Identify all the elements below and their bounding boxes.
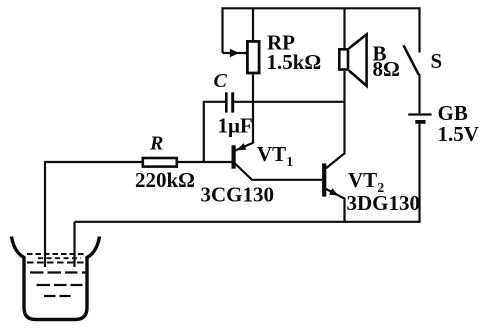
svg-text:1μF: 1μF [218, 113, 253, 137]
water dashes row 4 [37, 284, 83, 286]
water dashes row 5 [44, 295, 71, 297]
water dashes row 3 [30, 271, 87, 273]
svg-text:1.5V: 1.5V [438, 122, 479, 146]
battery GB positive plate [408, 113, 431, 115]
water surface dashes row 2 [27, 261, 87, 263]
water surface dashes row 1 [27, 253, 87, 255]
wire VT1 emitter vertical to node row [252, 102, 254, 144]
wire battery to bottom rail [418, 124, 420, 223]
wire right electrode drop [73, 222, 75, 267]
wire base wire R to VT1 [178, 161, 232, 163]
wire capacitor left lead [204, 102, 225, 162]
svg-text:8Ω: 8Ω [373, 57, 400, 81]
wire bottom rail [75, 221, 421, 223]
transistor VT2 emitter with NPN arrow [326, 188, 345, 199]
svg-text:3CG130: 3CG130 [201, 183, 275, 207]
wire switch to battery [418, 74, 420, 113]
svg-text:VT1: VT1 [257, 142, 293, 170]
wire top supply rail [221, 7, 420, 9]
wire node row from capacitor to speaker column [234, 101, 345, 103]
wire wiper feedback drop (left vertical from top rail) [221, 8, 223, 53]
svg-text:C: C [214, 70, 228, 92]
transistor VT1 base bar [232, 145, 236, 168]
speaker B cone [349, 34, 367, 86]
transistor VT1 emitter with PNP arrow [235, 143, 253, 151]
wire wiper lead with arrow into RP [223, 49, 247, 58]
svg-text:S: S [431, 49, 443, 73]
switch S blade [404, 45, 419, 74]
potentiometer RP body [247, 41, 259, 73]
wire right column top to switch [418, 8, 420, 52]
wire RP top lead [252, 8, 254, 40]
water ripple row near electrodes [38, 257, 81, 259]
svg-text:1.5kΩ: 1.5kΩ [267, 50, 322, 74]
transistor VT2 collector [326, 153, 345, 168]
wire speaker bottom lead [343, 71, 345, 102]
wire VT2 collector vertical to node row [343, 102, 345, 155]
svg-text:GB: GB [438, 101, 468, 125]
transistor VT2 base bar [322, 163, 326, 196]
beaker outline [12, 237, 100, 320]
svg-text:220kΩ: 220kΩ [135, 168, 195, 192]
wire VT2 emitter vertical to bottom rail [343, 198, 345, 222]
svg-text:R: R [149, 133, 163, 155]
wire left column to beaker (left electrode) [45, 162, 142, 267]
capacitor C plates [226, 92, 232, 112]
wire coupling VT1 collector to VT2 base [251, 179, 322, 181]
svg-text:3DG130: 3DG130 [347, 191, 421, 215]
transistor VT1 collector [235, 164, 252, 180]
wire RP bottom lead [252, 75, 254, 102]
wire speaker top lead [343, 8, 345, 48]
speaker B frame [339, 49, 348, 69]
resistor R body [143, 158, 177, 167]
battery GB negative plate [415, 120, 425, 124]
